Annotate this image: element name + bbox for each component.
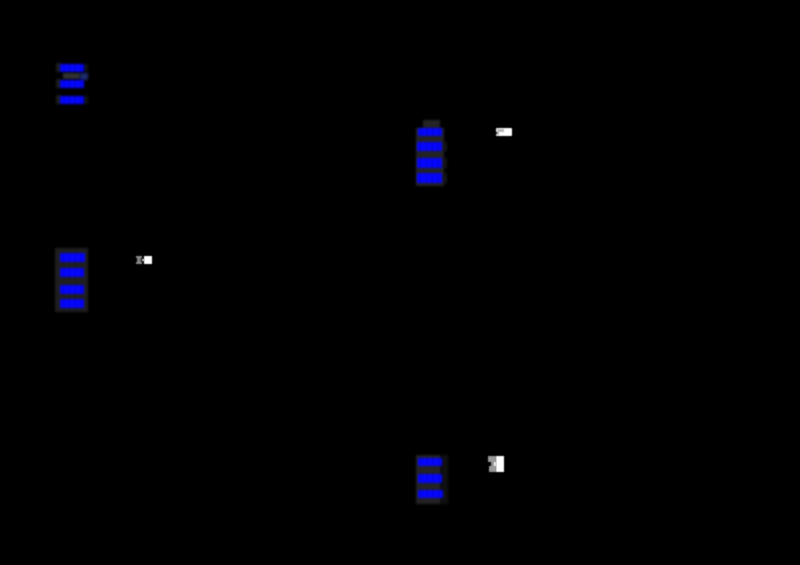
broken-image icon C white card xyxy=(496,128,512,137)
panel C right nubs xyxy=(443,142,447,151)
text row A2 gray xyxy=(63,73,80,80)
node A left ticks xyxy=(56,63,61,72)
link bar D3 xyxy=(418,490,443,499)
broken-image icon B white notch xyxy=(142,259,144,261)
link bar D1 xyxy=(418,458,442,467)
icon C gray sliver xyxy=(497,132,499,135)
panel C xyxy=(416,128,444,186)
icon C black notch xyxy=(495,132,497,135)
link bar B4 xyxy=(60,299,84,308)
link bar A3 xyxy=(60,80,84,88)
broken-image icon D gray part xyxy=(488,456,496,472)
text row A2 navy end xyxy=(80,73,89,80)
panel B xyxy=(55,248,88,312)
icon C gray flag xyxy=(497,129,504,133)
wire A right ticks xyxy=(84,64,88,72)
link bar B1 xyxy=(60,253,85,262)
link bar C2 xyxy=(417,142,442,151)
link bar B2 xyxy=(60,268,84,277)
tab C xyxy=(423,120,440,129)
panel D right edge xyxy=(441,455,448,504)
link bar B3 xyxy=(60,285,84,294)
broken-image icon B gray part xyxy=(136,256,143,264)
link bar D2 xyxy=(418,474,442,483)
link bar C4 xyxy=(417,173,442,183)
link bar C1 xyxy=(418,128,442,136)
link bar A4 xyxy=(60,96,84,104)
panel D xyxy=(416,455,441,504)
link bar C3 xyxy=(417,158,442,168)
broken-image icon B white page xyxy=(144,256,152,264)
link bar A1 xyxy=(60,64,84,72)
broken-image icon D white page xyxy=(496,456,504,472)
